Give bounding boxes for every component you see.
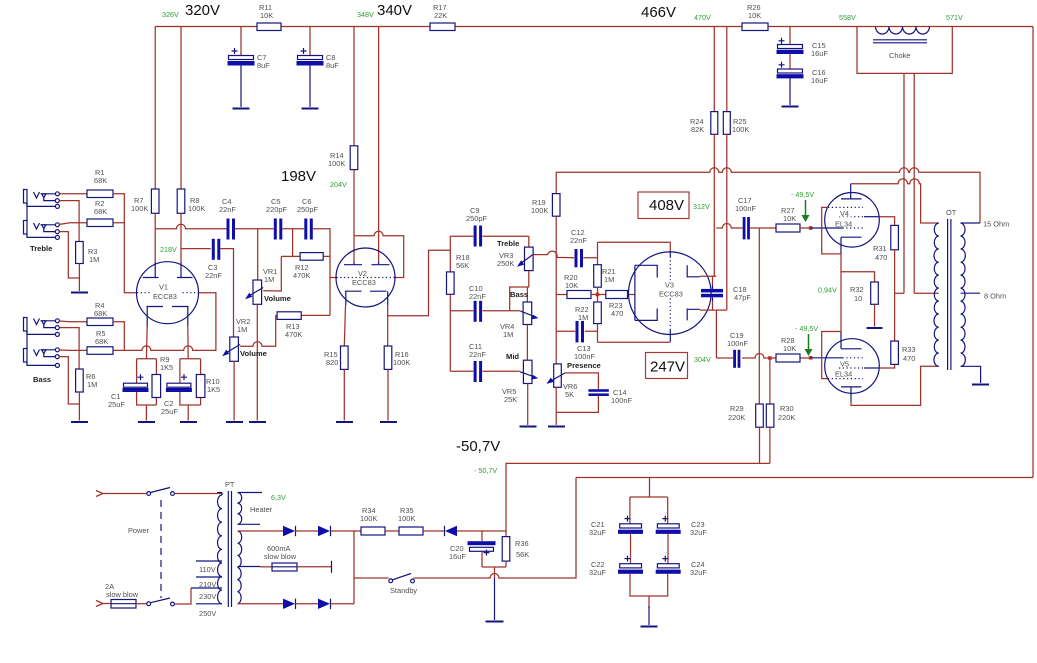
wire R25 feed from bus	[726, 27, 728, 112]
wire feedback line from R19 top to OT tap	[556, 168, 980, 223]
svg-text:10K: 10K	[565, 281, 578, 290]
transformer PT core	[228, 491, 231, 607]
svg-text:470: 470	[875, 253, 887, 262]
svg-text:V1: V1	[159, 283, 168, 292]
wire choke output loop	[857, 27, 952, 74]
tap PT 210V	[196, 576, 222, 578]
choke L1 coil	[876, 27, 930, 35]
diode D2	[318, 526, 331, 536]
svg-text:Treble: Treble	[30, 244, 52, 253]
wire VR2 wiper to R13	[240, 315, 277, 346]
ground below VR2	[226, 421, 243, 423]
wire D2 to R34 with HT junction	[331, 531, 362, 604]
svg-text:Heater: Heater	[250, 505, 273, 514]
svg-text:Power: Power	[128, 526, 149, 535]
wire C10 line	[450, 310, 520, 312]
svg-text:466V: 466V	[641, 4, 676, 21]
wire V1 cathode2 to C2 R10	[187, 326, 189, 359]
svg-text:22nF: 22nF	[469, 350, 486, 359]
wire VR4 bottom to VR5 top	[526, 325, 528, 361]
svg-text:558V: 558V	[839, 13, 856, 22]
resistor R2	[87, 219, 113, 227]
triode V2 anodes	[344, 262, 390, 265]
capacitor C13	[576, 321, 585, 342]
capacitor C1	[123, 374, 149, 392]
resistor R9	[152, 375, 161, 398]
wire jack1 ring to R2 line	[59, 201, 79, 223]
triode V3 anodes	[687, 265, 700, 320]
svg-text:250K: 250K	[497, 259, 514, 268]
wire C6 to V2 grid mix node	[301, 229, 337, 316]
wire V3 tail return	[598, 341, 671, 343]
ground below VR5	[520, 426, 537, 428]
svg-text:100K: 100K	[131, 204, 148, 213]
pentode V5 envelope	[825, 339, 880, 394]
wire R25 to anode2	[726, 134, 728, 310]
wire R14 feed from bus	[353, 27, 355, 146]
svg-text:Standby: Standby	[390, 586, 417, 595]
pentode V5 screen grid	[839, 367, 866, 369]
resistor R35	[399, 527, 423, 535]
svg-text:220K: 220K	[778, 413, 795, 422]
svg-text:V3: V3	[665, 281, 674, 290]
wire V5 suppressor to cathode loop	[822, 332, 841, 379]
resistor R11	[257, 23, 281, 31]
ground below R3	[71, 292, 88, 294]
wire R3 top lead	[78, 223, 80, 242]
wire V5 anode to OT primary bottom	[851, 366, 939, 405]
capacitor C7	[228, 48, 255, 107]
triode V1 envelope	[137, 262, 199, 324]
wire D1 to D2	[296, 530, 319, 532]
wire HT bottom lead	[238, 603, 284, 605]
svg-text:32uF: 32uF	[690, 528, 707, 537]
svg-text:22nF: 22nF	[469, 292, 486, 301]
svg-text:470V: 470V	[694, 13, 711, 22]
wire bias node to ground	[494, 578, 496, 620]
pentode V5 control grid	[811, 357, 843, 359]
wire HT top lead	[238, 530, 284, 532]
wire jack4 ring to R6 bottom	[59, 357, 79, 404]
resistor R15	[341, 346, 349, 369]
capacitor C9	[474, 226, 483, 247]
svg-text:22nF: 22nF	[570, 236, 587, 245]
ground below R32	[867, 327, 883, 329]
resistor R17	[430, 23, 455, 31]
resistor R20	[567, 291, 591, 299]
wire R22 bottom to C13 line	[597, 324, 599, 343]
resistor R5	[87, 347, 113, 355]
wire jack4 tip to R5	[59, 349, 87, 351]
svg-text:100K: 100K	[531, 206, 548, 215]
svg-text:8uF: 8uF	[257, 61, 270, 70]
wire V2 cathode1 to R15	[344, 305, 345, 346]
svg-text:56K: 56K	[516, 550, 529, 559]
wire C7 feed	[240, 27, 242, 56]
wire fuse to terminal	[297, 566, 332, 568]
wire OT secondary top tap	[961, 222, 980, 224]
svg-text:470: 470	[903, 354, 915, 363]
wire switch to PT primary top	[175, 493, 223, 495]
wire V4 anode to OT primary top	[851, 179, 939, 223]
svg-text:1M: 1M	[237, 325, 247, 334]
svg-text:PT: PT	[225, 480, 235, 489]
wire R8 anode node with C3 tap	[181, 213, 211, 262]
label V5 designator	[834, 360, 858, 379]
capacitor C22	[618, 556, 643, 574]
diode D4	[318, 599, 331, 609]
svg-text:1M: 1M	[87, 380, 97, 389]
wire OT secondary bottom to ground	[961, 366, 981, 383]
svg-text:250V: 250V	[199, 609, 216, 618]
triode V1 anodes	[143, 262, 193, 278]
junction V5 grid dot	[809, 356, 813, 360]
wire R8 feed from bus	[180, 27, 182, 190]
svg-text:6,3V: 6,3V	[271, 493, 286, 502]
pentode V4 anode	[841, 184, 862, 199]
ground below R16	[380, 421, 397, 423]
svg-text:R32: R32	[850, 285, 864, 294]
triode V3 cathodes	[635, 265, 657, 320]
wire presence rail R19 bottom to VR6	[555, 216, 557, 364]
svg-text:470: 470	[611, 309, 623, 318]
capacitor C15	[777, 38, 804, 69]
svg-text:348V: 348V	[357, 10, 374, 19]
pentode V4 envelope	[825, 193, 880, 248]
resistor R14	[350, 146, 358, 170]
resistor R28	[776, 354, 800, 362]
pentode V4 cathode	[841, 237, 862, 254]
svg-text:22nF: 22nF	[219, 205, 236, 214]
resistor R29	[756, 404, 764, 427]
wire jack3 ring to R5 line	[59, 328, 79, 351]
svg-text:ECC83: ECC83	[659, 290, 683, 299]
svg-text:R36: R36	[515, 539, 529, 548]
diode D1	[283, 526, 296, 536]
capacitor C18	[701, 285, 723, 301]
svg-text:470K: 470K	[285, 330, 302, 339]
wire tail junction	[591, 294, 606, 296]
wire main HT line across bottom	[576, 477, 1033, 479]
wire R21 bottom to tail node	[597, 287, 599, 294]
jack V4 input (bass 2)	[24, 331, 60, 367]
svg-text:ECC83: ECC83	[352, 278, 376, 287]
wire OT centre tap feed	[914, 292, 939, 294]
svg-text:Presence: Presence	[567, 361, 601, 370]
pentode V5 anode	[841, 387, 862, 402]
pentode V5 suppressor grid	[828, 378, 863, 380]
svg-text:100K: 100K	[732, 125, 749, 134]
wire C8 feed	[309, 27, 311, 56]
wire fuse to switch	[136, 603, 147, 605]
svg-text:EL34: EL34	[835, 370, 852, 379]
svg-text:82K: 82K	[691, 125, 704, 134]
svg-text:1K5: 1K5	[207, 385, 220, 394]
wire R3 bottom lead	[78, 264, 80, 292]
pentode V4 screen grid	[839, 216, 866, 218]
svg-text:R33: R33	[902, 345, 916, 354]
resistor R24	[711, 112, 718, 135]
resistor R18	[447, 272, 455, 294]
wire R20 left to presence rail	[556, 294, 567, 296]
label V4 designator	[834, 209, 858, 228]
svg-text:220pF: 220pF	[266, 205, 287, 214]
svg-text:25uF: 25uF	[108, 400, 125, 409]
svg-text:R30: R30	[780, 404, 794, 413]
svg-text:68K: 68K	[95, 337, 108, 346]
svg-text:470K: 470K	[293, 271, 310, 280]
capacitor C10	[474, 301, 483, 322]
svg-text:15 Ohm: 15 Ohm	[983, 220, 1009, 229]
ground below OT secondary	[972, 384, 989, 386]
wire C13 line presence rail to R22	[556, 330, 597, 332]
ground below VR6	[548, 426, 565, 428]
svg-text:32uF: 32uF	[690, 568, 707, 577]
resistor R26	[742, 23, 768, 31]
wire PT primary top bend	[217, 493, 222, 496]
potentiometer VR2	[222, 337, 240, 361]
svg-text:32uF: 32uF	[589, 568, 606, 577]
svg-text:10K: 10K	[783, 214, 796, 223]
wire R22 top lead	[597, 295, 599, 303]
ground below C8	[302, 108, 319, 110]
arrow bias V5	[805, 334, 813, 356]
jack V3 input (bass 1)	[24, 318, 60, 337]
wire filter bank feed	[630, 478, 668, 524]
resistor R34	[361, 527, 385, 535]
svg-text:218V: 218V	[160, 245, 177, 254]
capacitor C20	[468, 531, 496, 567]
wire VR1 bottom to ground	[256, 304, 258, 420]
resistor R7	[151, 189, 159, 213]
resistor R10	[196, 375, 205, 398]
capacitor C21	[618, 516, 643, 534]
ground below C16	[782, 106, 799, 108]
svg-text:100K: 100K	[360, 514, 377, 523]
svg-text:326V: 326V	[162, 10, 179, 19]
svg-text:100K: 100K	[393, 358, 410, 367]
svg-text:22K: 22K	[434, 11, 447, 20]
triode V2 cathodes	[345, 291, 388, 305]
wire VR6 wiper C14 loop	[556, 373, 598, 425]
wire C9 line	[450, 235, 529, 237]
ground below C20	[486, 621, 504, 623]
wire 320V/340V/466V top supply bus	[155, 26, 1033, 28]
svg-text:R29: R29	[730, 404, 744, 413]
svg-text:5K: 5K	[565, 390, 574, 399]
wire R27 to V4 grid	[800, 227, 812, 229]
svg-text:204V: 204V	[330, 180, 347, 189]
ground below VR1	[249, 421, 266, 423]
wire mains neutral input	[96, 601, 111, 607]
svg-text:8 Ohm: 8 Ohm	[984, 292, 1006, 301]
svg-text:110V: 110V	[199, 565, 216, 574]
svg-text:OT: OT	[946, 208, 957, 217]
ground below C1 R9	[138, 421, 155, 423]
svg-text:408V: 408V	[649, 197, 684, 214]
wire bias rail	[506, 463, 770, 531]
svg-text:Choke: Choke	[889, 51, 910, 60]
wire R34 to R35	[385, 530, 399, 532]
wire right edge HT riser	[1032, 27, 1034, 478]
transformer OT secondary coil	[961, 223, 966, 366]
wire filter bank bottom join	[630, 574, 668, 608]
jack V2 input (treble 2)	[24, 203, 60, 239]
transformer OT primary coil	[934, 223, 939, 366]
svg-text:- 50,7V: - 50,7V	[474, 466, 497, 475]
wire C23 to C24 link	[667, 534, 669, 564]
wire V2 cathode2 follower output	[388, 250, 451, 346]
svg-text:Volume: Volume	[240, 349, 267, 358]
triode V1 grid line	[137, 292, 199, 294]
choke L1 core	[873, 40, 927, 43]
potentiometer VR1	[245, 280, 263, 304]
svg-text:Volume: Volume	[264, 294, 291, 303]
wire standby line	[354, 478, 576, 579]
switch Power pole2	[147, 598, 175, 606]
resistor R16	[384, 346, 392, 369]
wire C19 line anode2 to V5 grid	[716, 354, 812, 359]
svg-text:V2: V2	[358, 269, 367, 278]
wire cathode bus V4 to V5	[840, 254, 842, 332]
svg-text:220K: 220K	[728, 413, 745, 422]
wire bass mix line R4 R5 junction to V1 grid2	[113, 293, 216, 351]
capacitor C2	[166, 374, 192, 392]
wire mains live input	[96, 491, 147, 497]
resistor R19	[552, 194, 560, 217]
tap PT 230V	[191, 587, 222, 589]
wire HT centre tap to fuse	[238, 566, 261, 568]
svg-text:100nF: 100nF	[727, 339, 748, 348]
wire VR5 bottom to ground	[527, 384, 529, 426]
ground below R6	[71, 421, 88, 423]
capacitor C19	[733, 350, 740, 368]
svg-text:slow blow: slow blow	[106, 590, 139, 599]
wire heater leads	[238, 493, 263, 525]
potentiometer VR3	[517, 236, 534, 270]
wire C5 to C6 with R12 tap	[263, 229, 304, 291]
potentiometer VR4	[521, 302, 539, 325]
wire VR3 bottom to VR4 top	[510, 271, 529, 311]
switch Standby	[389, 574, 415, 583]
svg-text:68K: 68K	[94, 309, 107, 318]
wire screen bus R31 to R33	[895, 250, 904, 341]
capacitor C24	[656, 556, 681, 574]
svg-text:32uF: 32uF	[589, 528, 606, 537]
svg-text:10K: 10K	[260, 11, 273, 20]
potentiometer VR6	[546, 364, 565, 387]
svg-text:1M: 1M	[578, 313, 588, 322]
svg-text:Mid: Mid	[506, 352, 519, 361]
svg-text:820: 820	[326, 358, 338, 367]
wire V4 screen to R31	[879, 217, 894, 226]
switch Power pole1	[147, 488, 175, 496]
wire C2 R10 parallel frame	[180, 359, 201, 421]
wire V2 anode2 feed from bus	[378, 27, 380, 263]
switch Power mechanical link	[160, 500, 162, 598]
triode V2 envelope	[336, 248, 395, 307]
diode D3	[283, 599, 296, 609]
svg-text:10: 10	[854, 294, 862, 303]
wire V3 anode2 node	[700, 301, 727, 358]
resistor R1	[87, 190, 113, 198]
svg-text:16uF: 16uF	[811, 49, 828, 58]
wire jack2 ring to R3 bottom	[59, 232, 79, 278]
wire R35 to bias diode	[423, 530, 444, 532]
svg-text:100nF: 100nF	[735, 204, 756, 213]
wire R14 to V2 anode1 with grid2 link	[354, 170, 404, 278]
svg-text:8uF: 8uF	[326, 61, 339, 70]
svg-text:198V: 198V	[281, 168, 316, 185]
svg-text:100K: 100K	[398, 514, 415, 523]
svg-text:230V: 230V	[199, 592, 216, 601]
ground below C7	[233, 108, 250, 110]
resistor R21	[594, 265, 602, 288]
wire screen supply risers from choke	[904, 73, 914, 293]
wire jack3 tip to R4	[59, 320, 87, 323]
svg-text:Bass: Bass	[510, 290, 528, 299]
svg-text:100K: 100K	[328, 159, 345, 168]
svg-text:22nF: 22nF	[205, 271, 222, 280]
ground below filter bank	[641, 606, 658, 627]
svg-text:100nF: 100nF	[611, 396, 632, 405]
wire D4 to HT junction	[331, 603, 355, 605]
svg-text:16uF: 16uF	[449, 552, 466, 561]
wire R6 bottom lead	[78, 392, 80, 421]
wire D3 to D4	[296, 603, 319, 605]
jack V1 input (treble 1)	[24, 190, 60, 209]
capacitor C17	[743, 217, 750, 239]
wire R24 feed from bus	[713, 27, 715, 112]
resistor R30	[766, 404, 774, 427]
svg-text:V5: V5	[840, 360, 849, 369]
wire V5 screen to R33	[879, 364, 894, 368]
wire diode to C20 R36 node	[457, 530, 506, 532]
svg-text:47pF: 47pF	[734, 293, 751, 302]
triode V3 grid line	[669, 251, 671, 342]
svg-text:-50,7V: -50,7V	[456, 438, 500, 455]
triode V1 cathodes	[147, 307, 189, 327]
resistor R6	[76, 369, 84, 392]
wire V1 cathode1 to C1 R9	[145, 326, 148, 359]
svg-text:100K: 100K	[188, 204, 205, 213]
resistor R3	[76, 242, 84, 264]
tap PT 110V	[196, 560, 222, 562]
pentode V4 suppressor grid	[828, 206, 863, 208]
svg-text:250pF: 250pF	[466, 214, 487, 223]
wire R15 bottom	[343, 369, 345, 420]
svg-text:56K: 56K	[456, 261, 469, 270]
junction V4 grid dot	[809, 226, 813, 230]
wire jack2 tip to R2	[59, 223, 87, 225]
wire R23 to V3 cathode entry	[628, 294, 636, 296]
svg-text:304V: 304V	[694, 355, 711, 364]
wire OT secondary 8 ohm tap	[961, 292, 980, 294]
wire V4 suppressor to cathode loop	[822, 207, 841, 254]
diode D5 bias	[445, 526, 458, 536]
svg-text:247V: 247V	[650, 359, 685, 376]
terminal HT fuse end	[331, 561, 333, 573]
resistor R32	[871, 282, 879, 304]
transformer OT core	[948, 219, 951, 370]
svg-text:- 49,5V: - 49,5V	[791, 190, 814, 199]
resistor R25	[723, 112, 730, 135]
potentiometer VR5	[520, 360, 538, 383]
wire jack1 tip to R1	[59, 193, 87, 195]
svg-text:340V: 340V	[377, 2, 412, 19]
svg-text:- 49,5V: - 49,5V	[795, 324, 818, 333]
ground below C2 R10	[180, 421, 197, 423]
